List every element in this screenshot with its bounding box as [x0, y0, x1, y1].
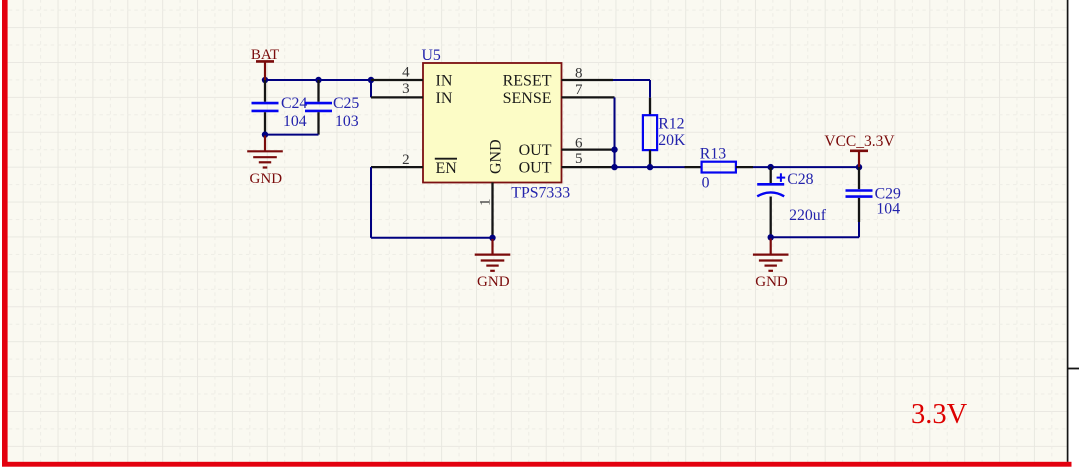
wire pin7 drop	[614, 97, 616, 167]
node pin5 junction	[611, 164, 617, 170]
pin 7 SENSE	[503, 82, 615, 107]
svg-text:220uf: 220uf	[789, 207, 827, 224]
svg-text:GND: GND	[250, 171, 283, 187]
svg-text:OUT: OUT	[519, 160, 552, 177]
svg-text:104: 104	[876, 200, 900, 217]
node pin6 junction	[611, 146, 617, 152]
svg-text:20K: 20K	[658, 132, 686, 149]
svg-text:3: 3	[402, 81, 410, 97]
capacitor C28	[757, 167, 826, 237]
pin 1 GND	[478, 139, 505, 237]
svg-text:0: 0	[702, 175, 710, 192]
svg-text:IN: IN	[436, 73, 453, 90]
svg-text:GND: GND	[477, 274, 510, 290]
node C28 top junction	[768, 164, 774, 170]
ground GND middle	[475, 239, 511, 290]
node C24 bottom junction	[262, 131, 268, 137]
op-amp U5 body	[422, 47, 571, 202]
svg-text:SENSE: SENSE	[503, 90, 552, 107]
pin 2 EN	[371, 152, 457, 177]
svg-text:4: 4	[402, 65, 410, 81]
wire pin4-pin3 drop	[370, 80, 372, 97]
svg-text:RESET: RESET	[503, 73, 552, 90]
node C25 top junction	[315, 77, 321, 83]
svg-text:IN: IN	[436, 90, 453, 107]
ground GND right	[753, 239, 789, 290]
capacitor C29	[846, 167, 902, 222]
pin 3 IN	[371, 81, 453, 107]
wire pin8 to R12	[613, 80, 650, 98]
svg-text:1: 1	[478, 199, 494, 207]
power port BAT	[251, 47, 279, 80]
resistor R12	[643, 98, 686, 167]
svg-text:6: 6	[575, 136, 583, 152]
wire output rail to R13	[613, 166, 685, 168]
ground GND left	[247, 136, 283, 188]
svg-text:R13: R13	[700, 145, 726, 162]
wire EN loop	[371, 167, 493, 238]
svg-text:2: 2	[402, 152, 410, 168]
svg-text:103: 103	[335, 113, 359, 130]
svg-text:7: 7	[575, 82, 583, 98]
wire C28-C29 bottom	[771, 222, 859, 237]
node VCC junction	[856, 164, 862, 170]
svg-text:U5: U5	[422, 47, 441, 64]
svg-text:C28: C28	[787, 171, 813, 188]
svg-text:OUT: OUT	[519, 142, 552, 159]
wire R13 to VCC	[753, 166, 859, 168]
node pin1 junction	[489, 235, 495, 241]
svg-text:EN: EN	[436, 160, 458, 177]
svg-text:C25: C25	[333, 95, 359, 112]
pin 4 IN	[371, 65, 453, 90]
node R12 bottom junction	[647, 164, 653, 170]
capacitor C25	[305, 80, 359, 135]
power port VCC_3.3V	[824, 133, 895, 167]
capacitor C24	[252, 80, 308, 135]
pin 6 OUT	[519, 136, 615, 160]
svg-text:R12: R12	[658, 116, 684, 133]
svg-text:3.3V: 3.3V	[911, 399, 968, 430]
svg-text:8: 8	[575, 66, 583, 82]
net label 3.3V	[911, 399, 968, 430]
node pin4 junction	[368, 77, 374, 83]
svg-text:GND: GND	[755, 274, 788, 290]
svg-text:GND: GND	[487, 139, 504, 174]
svg-text:C24: C24	[281, 95, 307, 112]
node C28 bottom junction	[768, 234, 774, 240]
wire BAT rail	[265, 79, 371, 81]
svg-text:104: 104	[283, 113, 307, 130]
svg-text:TPS7333: TPS7333	[511, 185, 570, 202]
svg-text:5: 5	[575, 151, 583, 167]
svg-text:VCC_3.3V: VCC_3.3V	[824, 133, 895, 150]
resistor R13	[685, 145, 754, 191]
pin 8 RESET	[503, 66, 613, 90]
wire C24-C25 bottom	[265, 134, 319, 136]
node BAT junction	[262, 77, 268, 83]
pin 5 OUT	[519, 151, 613, 177]
